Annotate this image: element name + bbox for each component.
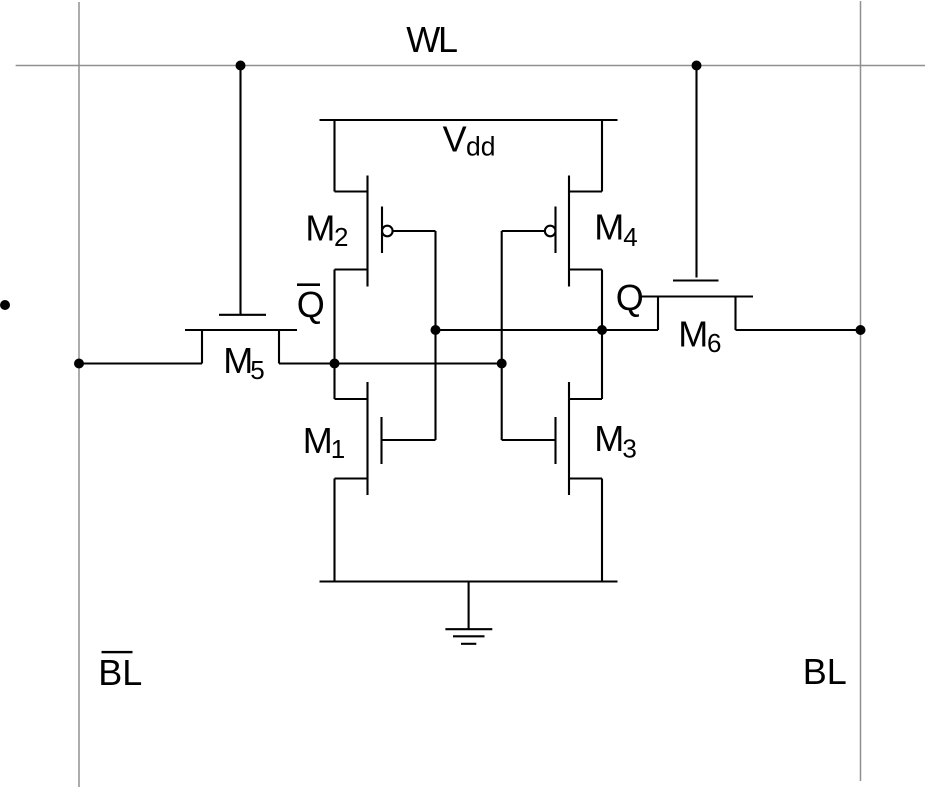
transistor M5 source lead	[201, 330, 203, 364]
transistor M5 drain lead	[278, 330, 280, 364]
transistor M4 drain connection	[569, 268, 602, 270]
transistor M3 channel	[568, 382, 570, 495]
transistor M4 source connection	[569, 190, 602, 192]
wire: Vdd to M4 source	[601, 119, 603, 191]
wire: node Q horizontal (left gate rail to M6 source)	[436, 329, 659, 331]
wire: M6 drain to BL	[736, 329, 861, 331]
wire: M1 source to ground rail	[333, 479, 335, 582]
junction dot BL / M6 drain	[856, 325, 866, 335]
svg-text:M: M	[303, 420, 333, 461]
svg-text:V: V	[443, 118, 467, 159]
transistor M6 channel	[642, 295, 754, 297]
transistor M2 drain connection	[335, 268, 368, 270]
junction dot Q-bar to right gates	[497, 359, 507, 369]
svg-text:6: 6	[707, 328, 721, 358]
transistor M4 gate bar	[554, 207, 556, 254]
svg-text:BL: BL	[98, 652, 142, 693]
junction dot BL-bar / M5 source	[74, 359, 84, 369]
svg-text:3: 3	[622, 433, 636, 463]
transistor M5 channel	[185, 329, 297, 331]
junction dot WL / M5 gate	[236, 61, 246, 71]
junction dot node Q	[597, 325, 607, 335]
ground bar 1	[445, 628, 492, 630]
bit-line BL-bar (left grey rail)	[78, 2, 80, 787]
overbar of Q-bar	[297, 283, 320, 286]
svg-text:BL: BL	[803, 651, 847, 692]
svg-text:L: L	[438, 19, 458, 60]
wire: node Q vertical (M4 drain to M3 drain)	[601, 270, 603, 400]
svg-text:M: M	[223, 340, 253, 381]
wire: BL-bar to M5 source	[79, 362, 202, 364]
svg-text:1: 1	[331, 434, 345, 464]
wire: Vdd to M2 source	[333, 119, 335, 191]
transistor M3 source connection	[569, 477, 602, 479]
svg-text:M: M	[594, 418, 624, 459]
Vdd rail	[320, 119, 618, 121]
continuation dot far left	[0, 300, 10, 310]
transistor M2 source connection	[335, 190, 368, 192]
junction dot WL / M6 gate	[692, 61, 702, 71]
transistor M3 gate bar	[554, 417, 556, 464]
wire: left inverter gate rail (gates of M1,M2 down to node Q)	[434, 231, 436, 440]
junction dot node Q-bar	[330, 359, 340, 369]
wire: WL to M5 gate	[239, 66, 241, 315]
wire: right inverter gate rail (gates of M3,M4 down to node Q-bar)	[501, 231, 503, 440]
ground rail	[320, 580, 618, 582]
ground bar 3	[461, 643, 476, 645]
svg-text:5: 5	[250, 355, 264, 385]
transistor M2 channel	[366, 176, 368, 287]
word line WL (grey rail)	[16, 65, 925, 67]
wire: M1 gate to left gate rail	[382, 439, 436, 441]
wire: M2 gate to left gate rail	[393, 230, 436, 232]
svg-text:4: 4	[623, 222, 637, 252]
wire: node Q-bar vertical (M2 drain to M1 drain)	[333, 270, 335, 400]
transistor M1 drain connection	[335, 398, 368, 400]
svg-text:Q: Q	[297, 284, 325, 325]
ground stem	[468, 582, 470, 630]
wire: WL to M6 gate	[695, 66, 697, 278]
svg-text:dd: dd	[466, 131, 495, 161]
transistor M6 source lead	[657, 297, 659, 331]
overbar of BL-bar	[102, 651, 133, 653]
svg-text:M: M	[678, 313, 708, 354]
transistor M4 channel	[568, 176, 570, 287]
wire: M5 drain to node Q-bar	[279, 362, 335, 364]
transistor M2 gate bar	[381, 207, 383, 254]
svg-text:2: 2	[334, 222, 348, 252]
transistor M1 gate bar	[380, 417, 382, 464]
transistor M6 drain lead	[734, 297, 736, 331]
svg-text:M: M	[594, 207, 624, 248]
svg-text:W: W	[406, 19, 440, 60]
transistor M6 gate bar	[673, 279, 719, 281]
bit-line BL (right grey rail)	[860, 1, 862, 781]
wire: M3 gate to right gate rail	[502, 439, 556, 441]
svg-text:M: M	[305, 207, 335, 248]
wire: M4 gate to right gate rail	[502, 230, 545, 232]
wire: node Q-bar horizontal (M5 drain to right gate rail)	[335, 362, 502, 364]
svg-text:Q: Q	[616, 277, 644, 318]
wire: M3 source to ground rail	[601, 479, 603, 582]
transistor M4 PMOS bubble	[545, 226, 556, 237]
transistor M1 channel	[366, 382, 368, 495]
transistor M1 source connection	[335, 477, 368, 479]
transistor M3 drain connection	[569, 398, 602, 400]
transistor M2 PMOS bubble	[382, 226, 393, 237]
transistor M5 gate bar	[219, 314, 266, 316]
ground bar 2	[453, 635, 485, 637]
junction dot Q to left gates	[431, 325, 441, 335]
